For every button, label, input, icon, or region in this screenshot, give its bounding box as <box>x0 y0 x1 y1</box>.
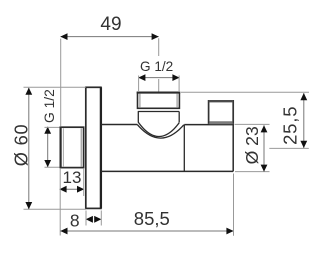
flange right edge thick <box>100 87 102 208</box>
dim 13 right extension line <box>83 169 85 196</box>
G 1/2 top left arrow <box>138 74 145 81</box>
inlet nut G 1/2 (left) <box>60 127 83 167</box>
dim 49 line <box>61 36 159 38</box>
dim O60 up arrow <box>25 88 32 95</box>
svg-text:Ø 60: Ø 60 <box>12 124 32 167</box>
dim 25,5 up arrow <box>300 93 307 100</box>
dim 49 left extension line <box>60 39 62 126</box>
dim O23 bottom extension line <box>235 171 270 173</box>
neck of top port <box>138 112 179 123</box>
top nut top edge thick <box>137 92 181 94</box>
dim 25,5 down arrow <box>300 141 307 148</box>
outlet port square (right, 3/8 compression) <box>209 101 234 124</box>
svg-text:25,5: 25,5 <box>280 106 301 145</box>
wall flange (escutcheon side view) <box>86 87 101 208</box>
dim 85,5 right extension line <box>233 174 235 236</box>
svg-text:G 1/2: G 1/2 <box>42 89 57 123</box>
svg-text:8: 8 <box>70 210 80 230</box>
outlet square top thick edge <box>209 100 234 102</box>
saddle intersection curve A <box>138 122 179 136</box>
dim O60 top extension line <box>24 86 86 88</box>
dim 13 left arrow <box>59 186 66 193</box>
dim 8 line arrows (back to back) <box>86 216 93 223</box>
G 1/2 top extension lines <box>139 76 180 93</box>
dim O23 down arrow <box>261 165 268 172</box>
dim 13 right arrow <box>77 186 84 193</box>
G 1/2 top dim line <box>139 77 180 79</box>
dim 13 / 85,5 left extension line <box>59 169 61 236</box>
dim 13 line <box>60 188 84 190</box>
inlet nut chamfer lines <box>62 128 64 167</box>
G 1/2 left down arrow <box>44 160 51 167</box>
valve body outline <box>101 125 233 172</box>
body/sleeve divider <box>183 125 185 172</box>
dim 25,5 bottom extension line <box>269 147 309 149</box>
dim 8 extension lines <box>86 211 101 226</box>
G 1/2 left up arrow <box>44 127 51 134</box>
top port nut G 1/2 <box>138 93 180 109</box>
svg-text:G 1/2: G 1/2 <box>140 59 173 74</box>
G 1/2 left dim line <box>47 127 49 167</box>
outlet square bottom gray band <box>209 121 232 124</box>
dim 49 left arrow <box>60 33 67 40</box>
G 1/2 left extension lines <box>45 127 60 167</box>
dim 25,5 top extension line <box>181 91 309 93</box>
saddle intersection curve B <box>137 125 184 139</box>
svg-text:13: 13 <box>63 168 82 187</box>
dim O60 line <box>28 88 30 209</box>
svg-text:85,5: 85,5 <box>134 208 170 229</box>
dim 25,5 line <box>303 93 305 148</box>
washer band under top nut <box>138 111 179 113</box>
dim 85,5 line <box>61 230 234 232</box>
dim O23 line <box>263 125 265 171</box>
svg-text:49: 49 <box>100 14 121 35</box>
dim O23 top extension line <box>235 123 270 125</box>
top nut chamfer lines <box>139 94 141 108</box>
svg-text:Ø 23: Ø 23 <box>242 126 262 164</box>
dim O60 bottom extension line <box>24 208 87 210</box>
dim O60 down arrow <box>25 202 32 209</box>
G 1/2 top right arrow <box>172 74 179 81</box>
dim 85,5 right arrow <box>226 228 233 235</box>
centerline of top port / 49 right extension <box>158 38 160 91</box>
dim 85,5 left arrow <box>60 228 67 235</box>
dim O23 up arrow <box>261 125 268 132</box>
dim 49 right arrow <box>152 33 159 40</box>
inlet nut left edge thick <box>59 127 61 168</box>
